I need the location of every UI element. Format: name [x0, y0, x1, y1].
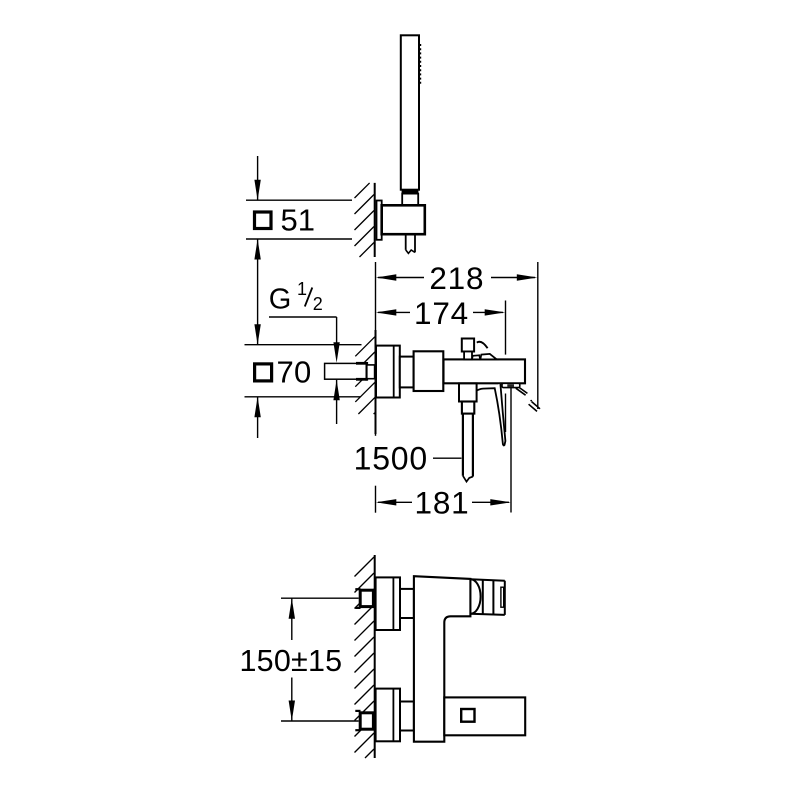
union nut (side view): [400, 357, 414, 388]
dimension 181 right arrow: [490, 499, 511, 505]
hose adapter: [462, 402, 474, 414]
shower holder block: [382, 205, 425, 234]
lever top edge: [470, 579, 504, 581]
bottom union nut (front view): [400, 702, 414, 731]
mixer body (front view): [414, 576, 471, 742]
handle spray nozzle ticks: [419, 44, 421, 86]
wall extension line lower / 181 left extension: [375, 434, 377, 436]
lever handle (side view): [476, 384, 505, 446]
G 1/2 upper arrow: [333, 342, 339, 363]
dimension 70 extension line bottom: [245, 396, 361, 398]
dimension 51 upper arrow: [254, 180, 260, 201]
wall extension line upper (side view): [375, 262, 377, 330]
shower outlet block: [459, 383, 477, 401]
dimension 181 line: [378, 501, 412, 503]
lever tip curve above body: [477, 342, 488, 348]
lever cap left edge: [492, 580, 494, 614]
handle connector: [402, 194, 418, 206]
svg-text:2: 2: [313, 294, 323, 314]
svg-text:218: 218: [429, 260, 484, 296]
dimension 51 to 70 connecting line: [257, 239, 259, 345]
wall line (front view): [374, 555, 376, 758]
square symbol 70: [255, 364, 272, 381]
lever divider line: [482, 580, 484, 615]
wall hatching (front view): [355, 557, 375, 577]
dimension 150 lower segment: [291, 678, 293, 722]
dimension 150 extension top: [281, 597, 359, 599]
svg-text:1500: 1500: [354, 441, 428, 477]
hand shower handle: [401, 35, 419, 189]
dimension 181 right extension: [510, 388, 512, 513]
dimension 70 lower arrow: [254, 397, 260, 418]
diverter knob stem: [464, 352, 472, 360]
square symbol 51: [255, 212, 272, 229]
diverter knob: [462, 339, 474, 352]
dimension 150 extension bottom: [281, 720, 359, 722]
G 1/2 lower tail: [336, 380, 338, 424]
svg-text:181: 181: [415, 484, 470, 520]
water spray marks lower: [529, 404, 537, 411]
lever cap stripe: [501, 587, 504, 607]
dimension 70 extension line top: [245, 344, 362, 346]
lever cap D-curve: [470, 579, 480, 614]
top escutcheon (front view): [376, 577, 400, 630]
dimension 174 line: [378, 311, 410, 313]
holder hose outlet: [406, 234, 415, 252]
lever bottom edge: [470, 614, 504, 615]
lever cap right edge: [504, 581, 506, 615]
wall hatching (top view): [355, 183, 370, 198]
dimension 70 upper arrow: [254, 324, 260, 345]
bottom supply elbow: [360, 713, 373, 729]
dimension 70 lower tail: [257, 397, 259, 438]
cartridge housing (side view): [414, 351, 444, 391]
dimension 51 upper tail: [257, 156, 259, 200]
dimension 150 lower arrow: [289, 701, 295, 722]
G 1/2 leader line: [269, 316, 337, 318]
dimension 51 lower arrow: [254, 239, 260, 260]
dimension 150 upper arrow: [289, 598, 295, 619]
bottom supply elbow whiskers: [355, 710, 360, 712]
wall line (side view): [375, 330, 377, 434]
supply nipple heavy segment: [356, 362, 367, 365]
wall line (top view): [374, 183, 376, 257]
dimension 51 extension line top: [246, 199, 352, 201]
mixer body (side view): [444, 359, 526, 383]
svg-text:150±15: 150±15: [240, 644, 343, 678]
dimension 218 line: [378, 277, 424, 279]
dimension 174 right arrow: [485, 309, 506, 315]
wall hatching (side view): [355, 337, 375, 357]
top supply elbow whiskers: [355, 588, 360, 590]
1500 leader line: [433, 457, 462, 459]
dimension 181 left arrow: [376, 499, 397, 505]
G 1/2 lower arrow: [333, 380, 339, 401]
handle collar band: [402, 189, 419, 193]
dimension 174 left arrow: [376, 309, 397, 315]
supply nipple wall box: [367, 365, 375, 379]
svg-text:70: 70: [277, 354, 312, 389]
holder wall plate: [377, 201, 382, 240]
dimension 218 left arrow: [376, 274, 397, 280]
svg-text:G: G: [269, 284, 292, 316]
top supply elbow: [360, 590, 373, 606]
bath spout (front view): [444, 697, 525, 735]
aerator (side view): [502, 383, 520, 387]
svg-text:174: 174: [414, 295, 469, 331]
spout aerator window: [461, 709, 474, 722]
svg-text:51: 51: [281, 203, 315, 238]
dimension 51 extension line bottom: [246, 238, 352, 240]
dimension 150 upper segment: [291, 598, 293, 640]
svg-text:1: 1: [297, 279, 307, 299]
bottom escutcheon (front view): [376, 689, 400, 742]
174 extension lower segment: [505, 394, 507, 433]
174 extension upper segment: [505, 301, 507, 355]
shower hose: [462, 414, 464, 476]
top union nut (front view): [400, 589, 414, 618]
supply nipple G 1/2: [325, 363, 367, 379]
water spray marks near aerator: [516, 388, 526, 395]
dimension 218 right arrow: [517, 274, 538, 280]
lever base bump 2: [480, 354, 496, 359]
lever base bump 1: [472, 355, 480, 359]
dimension 218 right extension: [537, 262, 539, 409]
escutcheon (side view): [376, 346, 400, 398]
